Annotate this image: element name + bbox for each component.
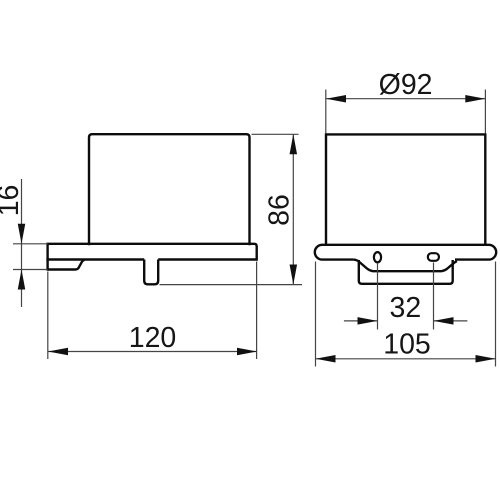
arrow 92 left (points left)	[326, 95, 346, 103]
bracket front lip (side view, left)	[48, 260, 85, 270]
screw slot right (front view)	[428, 253, 439, 261]
holder bracket plate (side view, left)	[48, 244, 257, 260]
arrow 16 upper (points down)	[18, 224, 26, 244]
svg-text:120: 120	[129, 322, 177, 354]
lip box (front view)	[359, 260, 453, 284]
dimension line 86	[292, 134, 294, 284]
dimension line 120	[48, 351, 257, 353]
svg-text:Ø92: Ø92	[379, 69, 433, 101]
extension line bottom for dim 86	[160, 284, 303, 286]
mounting peg (side view, left)	[144, 260, 158, 285]
dimension line 32 left tail	[344, 320, 378, 322]
extension line left for dim 92	[325, 90, 327, 134]
arrow 120 right (points right)	[237, 348, 257, 356]
svg-text:105: 105	[383, 329, 431, 361]
arrow 120 left (points left)	[48, 348, 68, 356]
dimension line 16	[21, 179, 23, 307]
lip shoulder profile (front view)	[353, 260, 457, 272]
extension line right for dim 105	[495, 262, 497, 367]
extension line right for dim 120	[256, 262, 258, 360]
svg-text:16: 16	[0, 185, 25, 217]
extension line right for dim 32	[433, 263, 435, 330]
extension line left for dim 105	[315, 262, 317, 367]
bracket lip left edge (side view)	[46, 258, 48, 271]
extension line top for dim 86	[252, 133, 299, 135]
dimension line 32 right tail	[434, 320, 468, 322]
arrow 105 left (points left)	[316, 355, 336, 363]
arrow 16 lower (points up)	[18, 270, 26, 290]
holder bar (front view, right)	[315, 245, 496, 260]
extension line left for dim 32	[377, 264, 379, 330]
svg-text:32: 32	[390, 292, 422, 324]
screw hole left (front view)	[374, 252, 381, 262]
extension line right for dim 92	[484, 90, 486, 134]
extension line left for dim 120	[47, 272, 49, 360]
arrow 32 left (points right, outside)	[358, 317, 378, 325]
arrow 32 right (points left, outside)	[434, 317, 454, 325]
dimension line 92	[326, 98, 485, 100]
svg-text:86: 86	[264, 194, 296, 226]
glass tumbler (front view, right)	[326, 134, 485, 245]
extension line bottom for dim 16	[13, 269, 48, 271]
extension line top for dim 16	[13, 243, 48, 245]
arrow 105 right (points right)	[476, 355, 496, 363]
arrow 86 top (points up)	[290, 134, 298, 154]
arrow 86 bottom (points down)	[290, 265, 298, 285]
dimension line 105	[316, 358, 496, 360]
arrow 92 right (points right)	[465, 95, 485, 103]
glass tumbler (side view, left)	[89, 134, 250, 245]
